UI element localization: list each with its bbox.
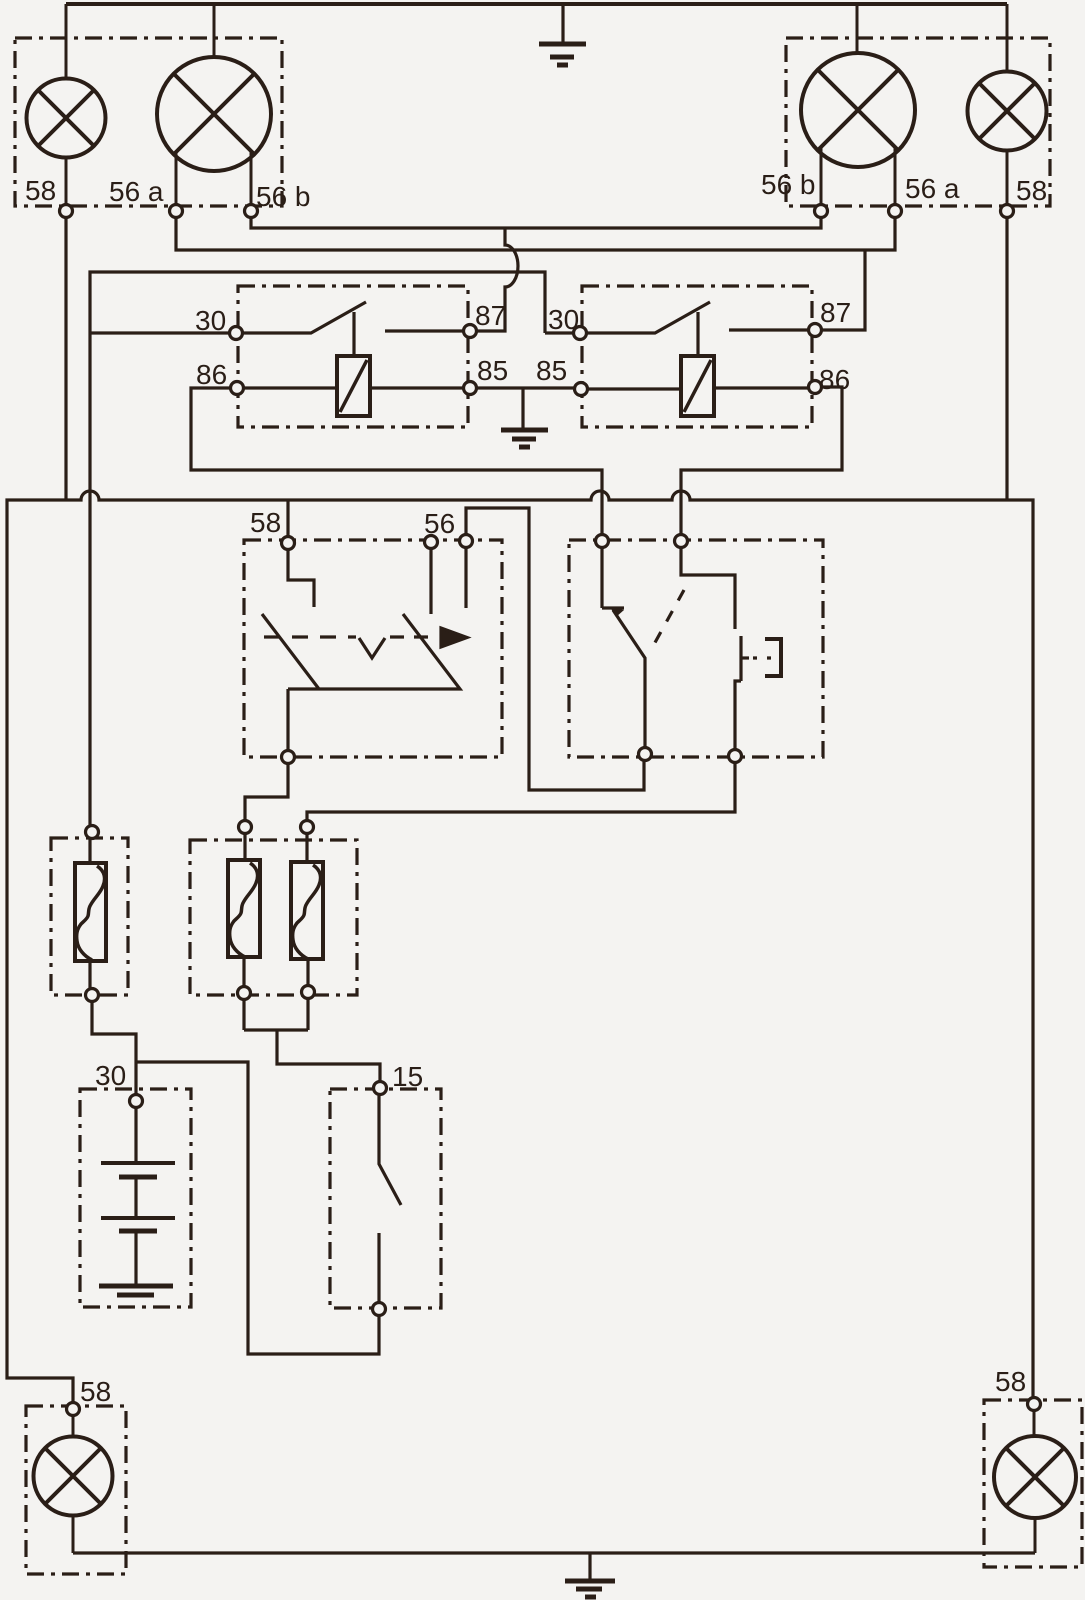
right headlamp unit dash-dot box (786, 38, 1050, 206)
lamp E5 tail left 58 (34, 1409, 113, 1553)
svg-text:85: 85 (536, 355, 567, 386)
node battery 30 (130, 1095, 143, 1108)
svg-text:85: 85 (477, 355, 508, 386)
svg-text:86: 86 (196, 359, 227, 390)
node 56b right top (815, 205, 828, 218)
svg-text:30: 30 (95, 1060, 126, 1091)
svg-text:58: 58 (1016, 175, 1047, 206)
wire: switch 58 terminal to bus (286, 500, 289, 543)
dip switch actuator dotted link (753, 656, 776, 659)
node K1 86 (231, 382, 244, 395)
node 58 bottom left (67, 1403, 80, 1416)
terminal nodes (small circles) (60, 205, 1041, 1416)
relay K1 dash-dot box (238, 286, 468, 427)
wire: top ground bus (66, 2, 1007, 6)
svg-text:56 b: 56 b (256, 181, 311, 212)
wire: relay coil grounds 85-85 (470, 388, 581, 429)
wire: switch bottom to fuse F2 (245, 757, 288, 827)
node K2 86 (809, 381, 822, 394)
node 56b left top (245, 205, 258, 218)
fuse F1 dash-dot box (51, 838, 128, 995)
headlight switch dash-dot box (244, 540, 502, 757)
dip switch right pole (flash contact) (681, 541, 749, 756)
battery G1 (101, 1101, 175, 1284)
ignition switch dash-dot box (330, 1089, 441, 1308)
wire: fuses F2 F3 join to ignition 15 (244, 992, 380, 1088)
node dip right top (675, 535, 688, 548)
node 56a right top (889, 205, 902, 218)
node 58 left top (60, 205, 73, 218)
wire 30 feed to both relays (90, 272, 578, 832)
relay K1 coil (237, 356, 470, 416)
dip switch left pole (602, 541, 645, 754)
svg-text:56 a: 56 a (905, 173, 960, 204)
headlight switch wiper (262, 614, 460, 757)
node ignition bottom (373, 1303, 386, 1316)
dip switch actuator bracket (765, 639, 781, 676)
node switch 58 (282, 537, 295, 550)
left headlamp unit dash-dot box (15, 38, 282, 206)
wire: relay2 87 up to 56a wire (816, 250, 865, 330)
battery internal ground (99, 1286, 173, 1295)
node dip left top (596, 535, 609, 548)
bottom left lamp dash-dot box (26, 1406, 126, 1574)
svg-text:87: 87 (820, 297, 851, 328)
svg-text:86: 86 (819, 364, 850, 395)
lamp E1 parking left 58 (27, 4, 106, 221)
node F3 bottom (302, 986, 315, 999)
wire: fuse F1 to battery (92, 995, 136, 1101)
node 58 right top (1001, 205, 1014, 218)
node K1 87 (464, 325, 477, 338)
node switch bottom (282, 751, 295, 764)
ignition switch S1 (379, 1088, 401, 1309)
wire: switch 56 out to dip switch input (466, 508, 644, 790)
node ignition 15 (374, 1082, 387, 1095)
svg-text:30: 30 (195, 305, 226, 336)
wire: battery node to ignition switch input (136, 1062, 379, 1354)
svg-text:58: 58 (995, 1366, 1026, 1397)
node 58 bus rectangle with hops (7, 491, 1033, 1409)
wire: top-right 58 lamp to bus (1005, 211, 1008, 500)
svg-text:58: 58 (25, 175, 56, 206)
wire: relay K2 86 to dip switch right (681, 387, 842, 541)
relay K2 contact arm 30-87 (580, 302, 813, 356)
headlight switch contact 58 (288, 543, 314, 607)
wire 56b: left lamp to right lamp low-beam (251, 206, 821, 228)
lamp E2 headlight left 56 (157, 4, 271, 221)
node dip left bottom (639, 748, 652, 761)
wire: relay1 87 up to 56b wire (hop over crossing wires) (471, 228, 518, 331)
wire: top-left 58 lamp to bus (64, 211, 67, 500)
fuse F1 (75, 832, 106, 995)
fuse F3 (291, 827, 323, 992)
wire 56a: left lamp to right lamp high-beam (176, 206, 895, 250)
svg-text:58: 58 (80, 1376, 111, 1407)
relay K2 coil (581, 356, 813, 416)
node switch 56 b (460, 535, 473, 548)
ground (between relays) (501, 430, 548, 447)
relay K1 contact arm 30-87 (236, 302, 470, 356)
fuse box F2/F3 dash-dot box (190, 840, 357, 995)
node F1 top (86, 826, 99, 839)
fuse F2 (228, 827, 260, 993)
svg-text:56 b: 56 b (761, 169, 816, 200)
headlight switch contacts 56 (431, 541, 466, 614)
node K1 85 (464, 382, 477, 395)
svg-text:58: 58 (250, 507, 281, 538)
dip switch mechanical dashed link (652, 590, 684, 648)
lamp E4 parking right 58 (968, 4, 1047, 221)
lamp E6 tail right 58 (994, 1404, 1076, 1553)
node F2 top (239, 821, 252, 834)
lamp E3 headlight right 56 (801, 4, 915, 221)
dip switch dash-dot box (569, 540, 823, 757)
node 56a left top (170, 205, 183, 218)
relay K2 dash-dot box (582, 286, 812, 427)
node F3 top (301, 821, 314, 834)
ground (top center) (539, 4, 586, 65)
ground (bottom center) (565, 1553, 615, 1597)
node K2 85 (575, 383, 588, 396)
svg-text:56 a: 56 a (109, 176, 164, 207)
wire: dip switch right to fuse F3 (307, 757, 735, 827)
wire: bottom ground bus (73, 1551, 1035, 1554)
headlight switch actuation dashes with detent and arrow (264, 628, 467, 658)
svg-text:87: 87 (475, 300, 506, 331)
battery dash-dot box (80, 1089, 191, 1307)
node K2 30 (574, 327, 587, 340)
node F2 bottom (238, 987, 251, 1000)
node F1 bottom (86, 989, 99, 1002)
wire: relay K1 86 to dip switch left (191, 388, 602, 541)
node K2 87 (809, 324, 822, 337)
node 58 bottom right (1028, 1398, 1041, 1411)
bottom right lamp dash-dot box (984, 1400, 1082, 1567)
svg-text:15: 15 (392, 1061, 423, 1092)
node dip right bottom (729, 750, 742, 763)
node K1 30 (230, 327, 243, 340)
node switch 56 a (425, 536, 438, 549)
